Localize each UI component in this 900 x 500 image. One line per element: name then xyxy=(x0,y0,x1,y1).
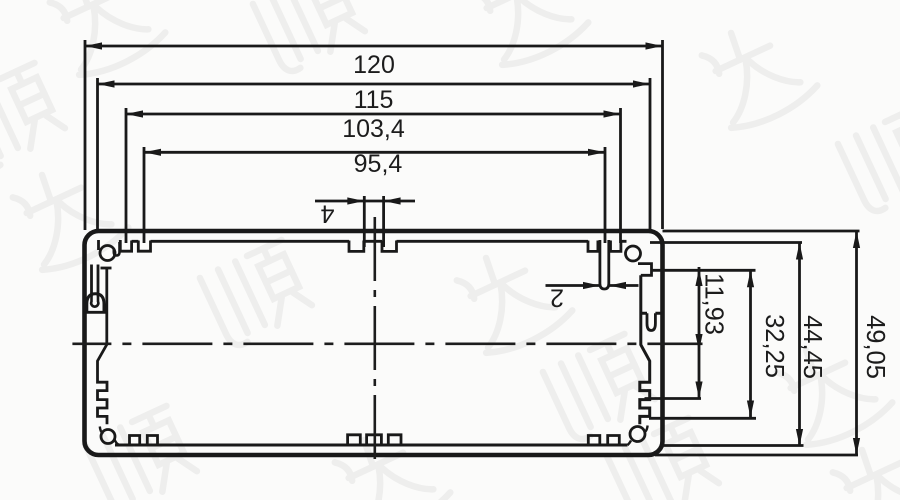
left wall screw slit xyxy=(92,265,99,297)
bottom-left rail bumps xyxy=(130,436,158,446)
arrows 49,05 xyxy=(853,231,860,248)
dim 4 extension lines xyxy=(364,196,383,247)
top screw slot (2mm) xyxy=(600,240,609,289)
svg-text:11,93: 11,93 xyxy=(700,273,728,335)
bottom-right rail bumps xyxy=(588,436,619,446)
arrows 44,45 xyxy=(796,243,803,260)
dimension line 95,4 xyxy=(144,151,605,154)
dimension line 120 xyxy=(85,45,663,48)
centerline vertical xyxy=(373,217,376,468)
dimension line 2 xyxy=(546,284,639,287)
top-left notch xyxy=(114,242,120,256)
top wall inner surface xyxy=(132,240,627,243)
profile outer shell xyxy=(85,231,663,455)
top-left corner screw channel xyxy=(100,246,115,261)
arrows 115 xyxy=(98,80,115,87)
left boss keyhole xyxy=(91,297,98,307)
svg-text:32,25: 32,25 xyxy=(760,314,788,378)
svg-text:120: 120 xyxy=(353,51,395,79)
bottom-right corner screw channel xyxy=(630,427,645,442)
bottom-center rail bumps xyxy=(348,435,401,445)
top-right wall grooves xyxy=(588,241,621,252)
svg-text:49,05: 49,05 xyxy=(861,315,889,379)
left wall inner surface with chamfer and zigzag serration xyxy=(98,269,108,425)
dimension line 11,93 xyxy=(698,267,701,399)
dimension line 4 xyxy=(315,200,415,203)
bottom wall inner surface xyxy=(115,444,628,447)
svg-text:95,4: 95,4 xyxy=(354,150,403,178)
svg-text:2: 2 xyxy=(550,284,564,312)
dimension line 49,05 xyxy=(855,231,858,455)
arrows 103,4 xyxy=(126,110,143,117)
top-left ledge xyxy=(101,267,112,270)
arrows 4 xyxy=(347,197,364,204)
dimension line 115 xyxy=(98,83,651,86)
dimension line 32,25 xyxy=(749,270,752,417)
extension lines top dims right xyxy=(605,40,663,243)
top-right corner screw channel xyxy=(626,246,641,261)
top-right ledge xyxy=(638,264,652,276)
bottom-left corner screw channel xyxy=(101,430,115,444)
svg-text:44,45: 44,45 xyxy=(798,315,826,379)
centerline horizontal xyxy=(72,342,702,345)
arrows 95,4 xyxy=(144,149,161,156)
arrows 11,93 xyxy=(695,269,702,286)
svg-text:115: 115 xyxy=(354,86,394,114)
arrows 32,25 xyxy=(747,270,754,287)
left wall screw boss arch xyxy=(87,294,104,313)
right wall channel, chamfer and zigzag serration xyxy=(640,275,661,424)
right wall screw cup xyxy=(647,313,655,330)
left boss ledge xyxy=(85,311,107,314)
dimension line 44,45 xyxy=(798,243,801,447)
arrows 2 xyxy=(583,282,600,289)
arrows 120 xyxy=(85,42,102,49)
svg-text:103,4: 103,4 xyxy=(342,115,405,143)
top-left wall grooves xyxy=(120,240,150,251)
extension lines top dims left xyxy=(85,40,144,243)
svg-text:4: 4 xyxy=(320,200,334,228)
top-center wall grooves xyxy=(349,241,397,252)
dimension line 103,4 xyxy=(126,113,621,116)
right side extension lines xyxy=(645,231,860,455)
